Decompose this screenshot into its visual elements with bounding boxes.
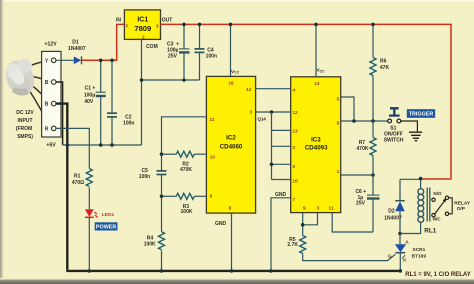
svg-text:3: 3 xyxy=(249,109,252,115)
wire +12V red from D1 to IC1 xyxy=(82,24,125,60)
svg-text:GND: GND xyxy=(275,192,287,198)
svg-text:100µ: 100µ xyxy=(84,93,95,99)
wire IC3 pin7 GND xyxy=(271,198,291,271)
IC text xyxy=(134,16,328,151)
svg-text:CD4060: CD4060 xyxy=(220,143,243,150)
diode D1 xyxy=(74,57,82,65)
svg-text:470K: 470K xyxy=(357,146,369,152)
pin B xyxy=(51,80,56,85)
svg-text:RELAY: RELAY xyxy=(454,200,471,206)
svg-text:47K: 47K xyxy=(380,65,390,71)
svg-text:RL1: RL1 xyxy=(424,227,437,234)
svg-text:12: 12 xyxy=(292,110,298,116)
svg-text:100K: 100K xyxy=(181,209,193,215)
svg-text:10: 10 xyxy=(210,154,216,160)
svg-text:1: 1 xyxy=(337,169,340,175)
switch S1 xyxy=(388,119,392,123)
svg-text:5: 5 xyxy=(337,96,340,102)
svg-text:C1 +: C1 + xyxy=(85,86,96,92)
svg-text:14: 14 xyxy=(314,81,320,87)
ground earth symbol xyxy=(409,131,422,133)
svg-text:COM: COM xyxy=(146,44,158,50)
capacitor C4 xyxy=(199,24,201,48)
relay contacts xyxy=(432,198,435,201)
svg-text:BT169: BT169 xyxy=(412,253,427,259)
capacitor C3 xyxy=(183,24,185,48)
resistor R2 xyxy=(162,153,177,155)
svg-text:OUT: OUT xyxy=(162,18,173,24)
svg-text:1N4007: 1N4007 xyxy=(68,46,86,52)
wire IC2 pin8 GND xyxy=(231,213,233,271)
svg-text:K: K xyxy=(403,257,407,263)
svg-text:R6: R6 xyxy=(380,59,387,65)
wire IC3 pin5 to pin8 xyxy=(341,97,354,121)
svg-text:100K: 100K xyxy=(144,241,156,247)
ground rail xyxy=(66,270,400,272)
svg-text:16: 16 xyxy=(228,80,234,86)
svg-text:100n: 100n xyxy=(206,53,217,59)
resistor R3 xyxy=(162,195,177,197)
svg-text:+5V: +5V xyxy=(46,143,56,149)
svg-text:IC1: IC1 xyxy=(137,16,148,23)
svg-text:A: A xyxy=(405,239,409,245)
svg-text:11: 11 xyxy=(328,205,333,211)
pin Y xyxy=(51,58,56,63)
svg-text:8: 8 xyxy=(337,121,340,127)
svg-text:7809: 7809 xyxy=(134,24,151,33)
wire coil top to +9V xyxy=(420,178,422,189)
SCR1 xyxy=(399,234,401,245)
resistor R4 xyxy=(161,196,163,232)
capacitor C2 xyxy=(111,60,113,113)
wire Y to D1 xyxy=(56,59,74,61)
svg-text:LED1: LED1 xyxy=(102,212,115,218)
resistor R7 xyxy=(370,138,376,156)
pin numbers red xyxy=(125,23,339,212)
svg-text:40V: 40V xyxy=(84,99,94,105)
svg-text:9: 9 xyxy=(303,205,306,211)
wire IC2 pin12 to IC3 pin4 xyxy=(256,88,291,90)
POWER label xyxy=(95,222,118,230)
wire IC3 pin8 to switch xyxy=(341,120,388,122)
svg-text:1: 1 xyxy=(125,23,128,29)
svg-text:INPUT: INPUT xyxy=(18,118,33,124)
svg-text:(FROM: (FROM xyxy=(16,126,32,132)
svg-text:B: B xyxy=(45,102,49,108)
capacitor C1 xyxy=(100,60,102,92)
svg-text:SWITCH: SWITCH xyxy=(384,137,404,143)
LED1 xyxy=(85,209,94,217)
svg-text:100n: 100n xyxy=(139,174,150,180)
svg-text:7: 7 xyxy=(292,197,295,203)
svg-text:11: 11 xyxy=(209,117,214,123)
svg-text:DC 12V: DC 12V xyxy=(16,110,34,116)
svg-text:3: 3 xyxy=(317,205,320,211)
IC2 CD4060 xyxy=(206,76,255,213)
connector plug (DC input from SMPS) xyxy=(1,56,50,128)
svg-text:CD4093: CD4093 xyxy=(305,145,328,152)
wire Q14 IC2 pin3 to IC3 pins xyxy=(256,111,291,113)
svg-text:2: 2 xyxy=(142,34,145,40)
svg-text:POWER: POWER xyxy=(96,225,116,231)
IC3 CD4093 xyxy=(291,77,341,213)
TRIGGER label xyxy=(407,109,435,118)
svg-text:R1: R1 xyxy=(74,173,81,179)
wire +9V red rail xyxy=(161,24,452,179)
relay RL1 coil xyxy=(418,189,424,195)
svg-text:SMPS): SMPS) xyxy=(17,134,33,140)
svg-text:GND: GND xyxy=(215,221,227,227)
svg-text:IC2: IC2 xyxy=(226,135,236,142)
svg-text:SCR1: SCR1 xyxy=(413,247,426,253)
capacitor C5 xyxy=(161,154,163,170)
capacitor C6 xyxy=(372,175,374,195)
resistor R5 xyxy=(300,236,306,254)
wire +5V from R pin down to R1 xyxy=(56,128,89,168)
svg-text:8: 8 xyxy=(229,206,232,212)
svg-text:VCC: VCC xyxy=(231,69,240,75)
svg-text:4: 4 xyxy=(292,88,295,94)
svg-text:2: 2 xyxy=(292,145,295,151)
svg-text:+12V: +12V xyxy=(44,42,57,48)
resistor R6 xyxy=(372,24,374,57)
svg-text:N/C: N/C xyxy=(433,217,442,222)
wire switch to earth xyxy=(401,121,418,132)
pin B xyxy=(51,101,56,106)
svg-text:R: R xyxy=(45,126,49,132)
svg-text:6: 6 xyxy=(292,164,295,170)
svg-text:3: 3 xyxy=(156,24,159,30)
svg-text:470K: 470K xyxy=(180,167,192,173)
wire IC3 pin1 xyxy=(341,174,373,176)
svg-text:VCC: VCC xyxy=(316,68,325,74)
svg-text:N/O: N/O xyxy=(433,191,442,196)
svg-text:9: 9 xyxy=(210,194,213,200)
svg-text:G: G xyxy=(388,254,392,260)
wire IC3 pin9 pin3 xyxy=(302,213,304,236)
svg-text:13: 13 xyxy=(292,129,298,135)
wire IC3 Vcc xyxy=(315,24,317,76)
resistor R1 xyxy=(86,169,92,187)
wire coil bottom to SCR anode xyxy=(400,222,421,234)
pin R xyxy=(51,126,56,131)
svg-text:12: 12 xyxy=(246,87,252,93)
svg-text:1N4007: 1N4007 xyxy=(384,216,402,222)
wire common ground row xyxy=(63,144,142,146)
diode D2 xyxy=(400,178,421,180)
svg-text:IN: IN xyxy=(116,18,121,24)
wire bracket IC3 inputs xyxy=(271,112,273,180)
wire R5 to SCR gate xyxy=(303,254,396,261)
wire ground B pins xyxy=(56,82,63,145)
svg-text:2.7K: 2.7K xyxy=(287,242,298,248)
svg-text:D2: D2 xyxy=(388,209,395,215)
svg-text:10: 10 xyxy=(292,179,298,185)
wire C6 to IC3 pin11 xyxy=(332,213,373,232)
svg-text:470Ω: 470Ω xyxy=(72,180,84,186)
svg-text:100n: 100n xyxy=(123,120,134,126)
svg-text:O/P: O/P xyxy=(457,206,466,212)
wire IC1 COM down xyxy=(141,39,143,145)
svg-text:Q14: Q14 xyxy=(258,116,267,121)
svg-text:25V: 25V xyxy=(168,54,178,60)
svg-text:B: B xyxy=(45,80,49,86)
wire LED to ground rail xyxy=(88,218,90,271)
svg-text:RL1 = 9V, 1 C/O RELAY: RL1 = 9V, 1 C/O RELAY xyxy=(405,272,470,278)
input terminal box xyxy=(42,51,61,137)
svg-text:TRIGGER: TRIGGER xyxy=(409,112,434,118)
wire IC2 Vcc xyxy=(230,24,232,76)
svg-text:D1: D1 xyxy=(72,40,79,46)
wire COM to C3 C4 bottoms xyxy=(142,79,200,81)
svg-text:25V: 25V xyxy=(356,201,366,207)
regulator IC1 7809 xyxy=(124,10,160,40)
wire IC2 pin11 to oscillator node xyxy=(162,117,207,154)
svg-text:IC3: IC3 xyxy=(311,137,321,144)
